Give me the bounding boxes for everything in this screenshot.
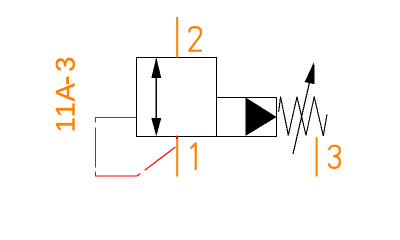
- port 2 line: [176, 17, 178, 58]
- adjustment arrowhead: [305, 62, 315, 85]
- pilot line left segment (dashed): [95, 118, 97, 177]
- port label 3: [329, 146, 340, 168]
- pilot line bottom segment: [95, 175, 137, 177]
- pilot line end tick at port 1: [176, 136, 178, 139]
- pilot line diagonal to port 1 (dashed): [137, 137, 177, 176]
- flow path double-arrow shaft: [155, 59, 157, 135]
- spring: [279, 97, 327, 136]
- double-arrow bottom arrowhead: [151, 118, 161, 136]
- tag hyphen stroke: [67, 76, 69, 84]
- double-arrow top arrowhead: [151, 57, 161, 78]
- svg-text:11A-3: 11A-3: [51, 57, 81, 132]
- port label 1: [191, 143, 196, 169]
- pilot line top segment: [95, 117, 137, 119]
- port label 2: [189, 27, 201, 51]
- valve body square: [137, 58, 217, 137]
- pilot stage box: [217, 98, 277, 137]
- flow direction triangle: [246, 97, 277, 135]
- port 1 line: [176, 137, 178, 177]
- adjustment arrow shaft: [293, 83, 310, 155]
- port 3 line: [316, 137, 318, 176]
